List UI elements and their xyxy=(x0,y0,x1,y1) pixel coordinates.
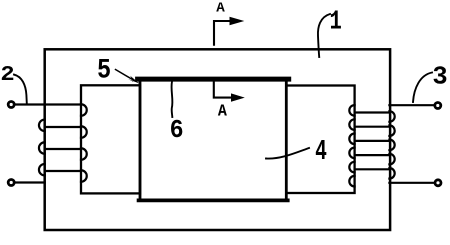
wire: right coil rung 5 xyxy=(355,168,390,170)
arrowhead of section arrow A top xyxy=(230,17,245,25)
coil L1 right-side turns xyxy=(81,104,87,182)
core outer box 1 xyxy=(45,49,390,230)
wire: left coil rung 2 xyxy=(45,148,81,150)
svg-text:A: A xyxy=(218,103,228,122)
wire: left coil rung 3 xyxy=(45,170,81,172)
svg-text:1: 1 xyxy=(329,6,341,36)
wire: left coil top lead xyxy=(15,103,81,105)
svg-text:5: 5 xyxy=(97,56,111,87)
right winding former rect xyxy=(286,86,354,194)
terminal circle right-bottom xyxy=(435,180,441,186)
svg-text:3: 3 xyxy=(432,63,447,92)
terminal circle left-bottom xyxy=(8,180,14,186)
central box 4 xyxy=(140,79,286,200)
coil L2 left-side turns xyxy=(349,105,354,186)
wire: right coil rung 2 xyxy=(355,126,390,128)
terminal circle right-top xyxy=(435,103,441,109)
wire: right coil rung 1 xyxy=(355,111,390,113)
wire: left coil rung 1 xyxy=(45,126,81,128)
arrowhead of section arrow A inner xyxy=(231,93,245,101)
layer 5 thick top edge of central box xyxy=(138,77,289,82)
thick bottom edge of central box xyxy=(139,198,288,202)
arrowhead of leader 5 xyxy=(128,76,140,84)
left winding former rect xyxy=(81,85,140,193)
section line A inner xyxy=(214,82,231,98)
section line A top xyxy=(214,21,230,45)
wire: right coil rung 3 xyxy=(355,140,390,142)
leader for label 4 xyxy=(266,148,309,159)
wire: right coil rung 4 xyxy=(355,154,390,156)
leader for label 2 xyxy=(14,75,27,104)
leader for label 1 xyxy=(318,14,330,57)
svg-text:2: 2 xyxy=(0,63,14,87)
wire: left coil bottom lead xyxy=(15,181,45,183)
wire: right coil bottom lead xyxy=(389,182,434,184)
coil L2 right-side turns xyxy=(389,111,394,178)
leader for label 5 (arrow) xyxy=(116,70,136,82)
leader for label 3 xyxy=(413,73,432,103)
svg-text:A: A xyxy=(216,1,225,17)
svg-text:6: 6 xyxy=(170,115,184,145)
leader for label 6 xyxy=(171,82,174,118)
coil L1 left-side turns xyxy=(39,120,45,176)
wire: right coil top lead xyxy=(389,104,434,106)
terminal circle left-top xyxy=(8,102,14,108)
svg-text:4: 4 xyxy=(315,135,327,168)
